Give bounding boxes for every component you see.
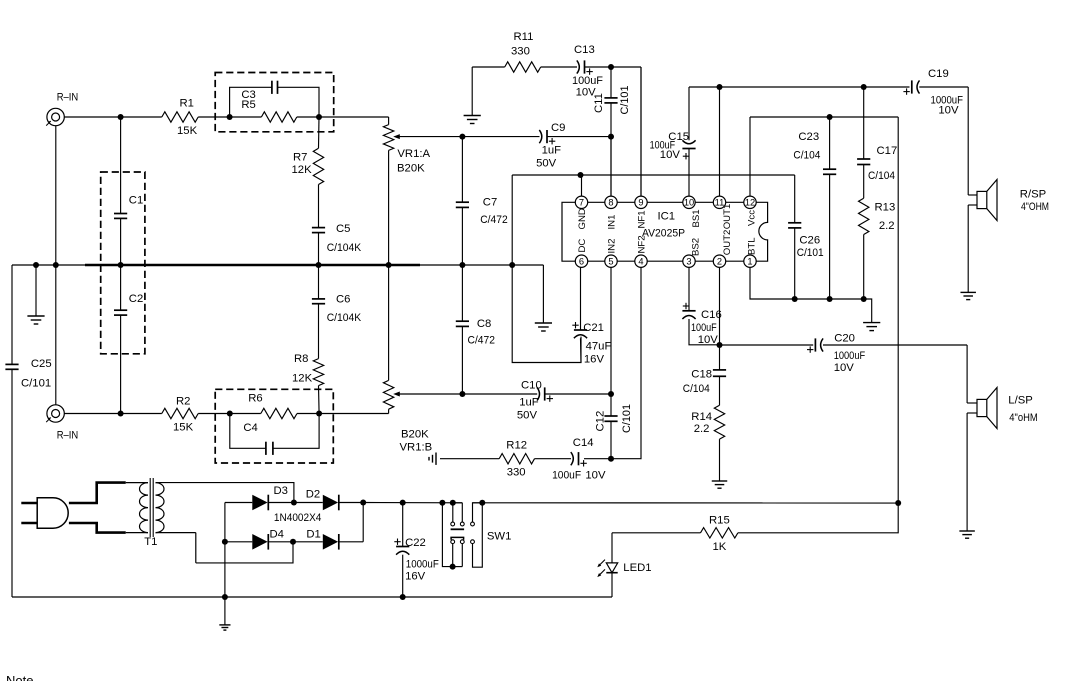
svg-text:6: 6 [579, 257, 584, 267]
svg-text:R14: R14 [691, 411, 712, 423]
svg-text:T1: T1 [144, 536, 157, 548]
svg-text:C/104: C/104 [793, 150, 820, 162]
svg-text:C/104K: C/104K [327, 312, 362, 324]
svg-text:C26: C26 [799, 234, 820, 246]
svg-text:R12: R12 [506, 440, 527, 452]
svg-text:C18: C18 [691, 369, 712, 381]
svg-text:B20K: B20K [397, 163, 425, 175]
svg-text:1000uF: 1000uF [406, 558, 439, 570]
svg-text:C19: C19 [928, 68, 949, 80]
svg-text:C25: C25 [31, 358, 52, 370]
svg-text:10V: 10V [585, 470, 606, 482]
svg-text:9: 9 [638, 198, 643, 208]
svg-text:BTL: BTL [747, 237, 758, 255]
svg-text:16V: 16V [405, 571, 426, 583]
svg-text:BS1: BS1 [691, 209, 702, 227]
svg-text:D2: D2 [306, 489, 320, 501]
svg-text:R8: R8 [294, 353, 308, 365]
svg-text:C11: C11 [593, 93, 605, 113]
svg-text:R11: R11 [514, 31, 534, 43]
svg-text:C22: C22 [405, 537, 426, 549]
svg-text:2.2: 2.2 [879, 220, 895, 232]
svg-text:1uF: 1uF [542, 145, 562, 157]
svg-text:Vcc: Vcc [747, 210, 758, 226]
svg-text:16V: 16V [584, 354, 605, 366]
svg-text:C2: C2 [129, 293, 143, 305]
svg-text:10V: 10V [660, 149, 681, 161]
svg-text:12K: 12K [292, 164, 313, 176]
svg-text:OUT1: OUT1 [722, 204, 733, 230]
svg-text:47uF: 47uF [586, 341, 612, 353]
svg-text:1K: 1K [713, 541, 727, 553]
svg-text:R1: R1 [180, 98, 194, 110]
svg-text:C10: C10 [521, 380, 542, 392]
svg-text:C/472: C/472 [468, 335, 496, 347]
svg-text:LED1: LED1 [623, 562, 651, 574]
svg-text:1: 1 [747, 257, 752, 267]
svg-text:10V: 10V [834, 362, 855, 374]
svg-text:C17: C17 [877, 145, 898, 157]
svg-text:1N4002X4: 1N4002X4 [274, 512, 322, 524]
svg-text:15K: 15K [173, 422, 194, 434]
svg-text:VR1:A: VR1:A [397, 148, 430, 160]
svg-text:D3: D3 [274, 485, 288, 497]
svg-text:12: 12 [745, 198, 755, 208]
svg-text:4: 4 [638, 257, 643, 267]
svg-text:D4: D4 [270, 529, 284, 541]
svg-text:C13: C13 [574, 44, 595, 56]
svg-text:1000uF: 1000uF [834, 350, 866, 362]
svg-text:C/101: C/101 [619, 86, 631, 115]
svg-text:R2: R2 [176, 396, 190, 408]
svg-text:C1: C1 [129, 195, 143, 207]
svg-text:C20: C20 [834, 333, 855, 345]
svg-text:IN2: IN2 [606, 239, 617, 254]
svg-text:8: 8 [608, 198, 613, 208]
svg-text:5: 5 [608, 257, 613, 267]
svg-text:AV2025P: AV2025P [642, 228, 685, 240]
svg-text:DC: DC [577, 239, 588, 253]
svg-text:2: 2 [717, 257, 722, 267]
svg-text:NF1: NF1 [636, 210, 647, 228]
svg-text:100uF: 100uF [572, 75, 603, 87]
svg-text:100uF: 100uF [552, 470, 581, 482]
svg-text:VR1:B: VR1:B [400, 442, 433, 454]
svg-text:R–IN: R–IN [57, 429, 78, 441]
svg-text:330: 330 [507, 467, 526, 479]
svg-text:4"oHM: 4"oHM [1009, 412, 1038, 424]
svg-text:C4: C4 [243, 422, 257, 434]
svg-text:C6: C6 [336, 294, 350, 306]
svg-text:R13: R13 [875, 202, 896, 214]
svg-text:Note: Note [6, 673, 33, 681]
svg-text:C8: C8 [477, 318, 491, 330]
svg-text:C/101: C/101 [21, 378, 51, 390]
svg-text:C23: C23 [798, 131, 819, 143]
svg-text:SW1: SW1 [487, 530, 511, 542]
svg-text:7: 7 [579, 198, 584, 208]
svg-text:10V: 10V [698, 334, 719, 346]
svg-text:C5: C5 [336, 223, 350, 235]
svg-text:C/472: C/472 [480, 214, 508, 226]
svg-text:C/101: C/101 [621, 404, 633, 433]
svg-text:D1: D1 [306, 529, 320, 541]
svg-text:C12: C12 [595, 411, 607, 432]
svg-text:C14: C14 [573, 437, 594, 449]
svg-text:R5: R5 [241, 99, 255, 111]
svg-text:L/SP: L/SP [1008, 395, 1033, 407]
svg-text:C9: C9 [551, 122, 565, 134]
svg-text:50V: 50V [536, 157, 557, 169]
svg-text:12K: 12K [292, 373, 313, 385]
svg-text:1uF: 1uF [519, 397, 539, 409]
svg-text:10: 10 [684, 198, 694, 208]
svg-text:3: 3 [686, 257, 691, 267]
svg-text:NF2: NF2 [636, 235, 647, 253]
svg-text:R15: R15 [709, 515, 730, 527]
svg-text:R6: R6 [248, 393, 262, 405]
svg-text:IN1: IN1 [606, 215, 617, 230]
svg-text:R–IN: R–IN [57, 92, 78, 104]
svg-text:330: 330 [511, 46, 530, 58]
svg-text:R/SP: R/SP [1020, 189, 1046, 201]
svg-text:C7: C7 [483, 196, 497, 208]
svg-text:100uF: 100uF [691, 322, 717, 334]
svg-text:C/101: C/101 [797, 247, 824, 259]
svg-text:2.2: 2.2 [694, 423, 710, 435]
svg-text:R7: R7 [293, 152, 307, 164]
svg-text:50V: 50V [517, 409, 538, 421]
svg-text:C21: C21 [583, 322, 604, 334]
svg-text:BS2: BS2 [690, 238, 701, 256]
svg-text:15K: 15K [177, 125, 198, 137]
svg-text:10V: 10V [938, 105, 959, 117]
svg-text:C/104K: C/104K [327, 242, 362, 254]
svg-text:C/104: C/104 [868, 170, 895, 182]
svg-text:GND: GND [577, 208, 588, 229]
svg-text:C/104: C/104 [683, 383, 710, 395]
svg-text:C16: C16 [701, 309, 722, 321]
svg-text:4"OHM: 4"OHM [1021, 201, 1049, 213]
svg-text:OUT2: OUT2 [722, 230, 733, 256]
svg-text:B20K: B20K [401, 429, 429, 441]
svg-text:IC1: IC1 [658, 211, 676, 223]
